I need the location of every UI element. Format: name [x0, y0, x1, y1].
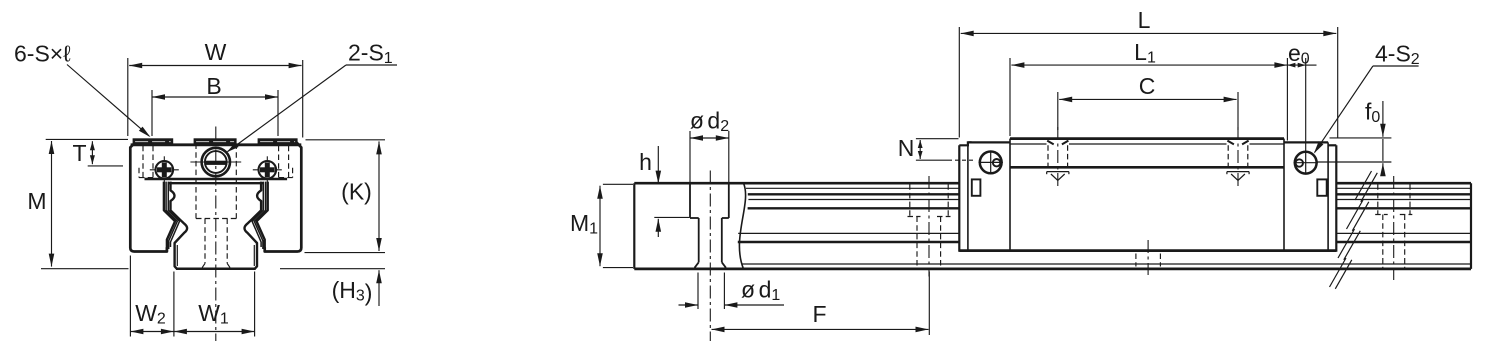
side view: hole 1 centerline	[709, 171, 711, 342]
svg-text:L: L	[1138, 7, 1151, 33]
svg-text:6-S×ℓ: 6-S×ℓ	[14, 41, 71, 67]
side view: side grease port notches	[972, 179, 981, 195]
end view: vertical centerline of rail and block	[215, 127, 217, 342]
end view: phillips screw right	[253, 169, 282, 171]
end view: block top face line	[131, 143, 302, 146]
side view: rail bolt hole 2 (hidden, dashed)	[909, 184, 911, 216]
end view: rail lower sides and bottom	[176, 268, 256, 271]
side view: broken-out section squiggle	[739, 183, 745, 269]
side view: end-plate screw + grease hole left	[980, 152, 1002, 174]
end view: hidden rail bolt counterbore (dashed)	[195, 144, 197, 219]
svg-text:M: M	[27, 188, 46, 214]
end view: block underside plate line above rail	[145, 178, 288, 180]
end view: nipple horizontal centerline	[190, 161, 241, 163]
side view: tapped holes S2 on block top (hidden)	[1047, 145, 1049, 167]
side view: block body outline	[959, 142, 971, 145]
side view: rail bolt hole 3 under block (hidden)	[1147, 240, 1149, 275]
end view: block inner profile / rail groove bundle left	[164, 182, 175, 252]
svg-text:W: W	[205, 39, 227, 65]
svg-text:N: N	[898, 135, 915, 161]
svg-text:B: B	[206, 73, 221, 99]
end view: hidden mounting bolt holes (dashed) left	[142, 146, 144, 178]
svg-text:C: C	[1139, 73, 1156, 99]
side view: rail outline	[634, 182, 959, 185]
end view: phillips screw left (end-plate bolt)	[150, 169, 179, 171]
side view: rail bolt hole 1 counterbore (sectioned)	[689, 184, 691, 218]
svg-text:h: h	[639, 149, 652, 175]
end view: raised top pads with mounting hole band	[133, 138, 174, 146]
side view: rail groove lines	[746, 187, 959, 189]
end view: guide block outer body outline	[130, 140, 167, 252]
end view: grease nipple circles	[202, 148, 230, 176]
end view: rail top surface line	[168, 182, 264, 184]
side view: rail length break symbol (double jog)	[1355, 171, 1372, 200]
side view: end-plate screw + grease hole right (4-S2 target)	[1295, 152, 1317, 174]
svg-text:(H3): (H3)	[332, 277, 373, 306]
svg-text:(K): (K)	[341, 179, 372, 205]
side view: body top band lines	[1010, 143, 1047, 145]
svg-text:T: T	[72, 140, 86, 166]
side view: rail bolt hole 4 (hidden, dashed)	[1377, 184, 1379, 214]
svg-text:F: F	[812, 301, 826, 327]
end view: rail lower side companion lines	[176, 245, 178, 266]
end view: hidden mounting bolt holes (dashed) right	[288, 146, 290, 178]
